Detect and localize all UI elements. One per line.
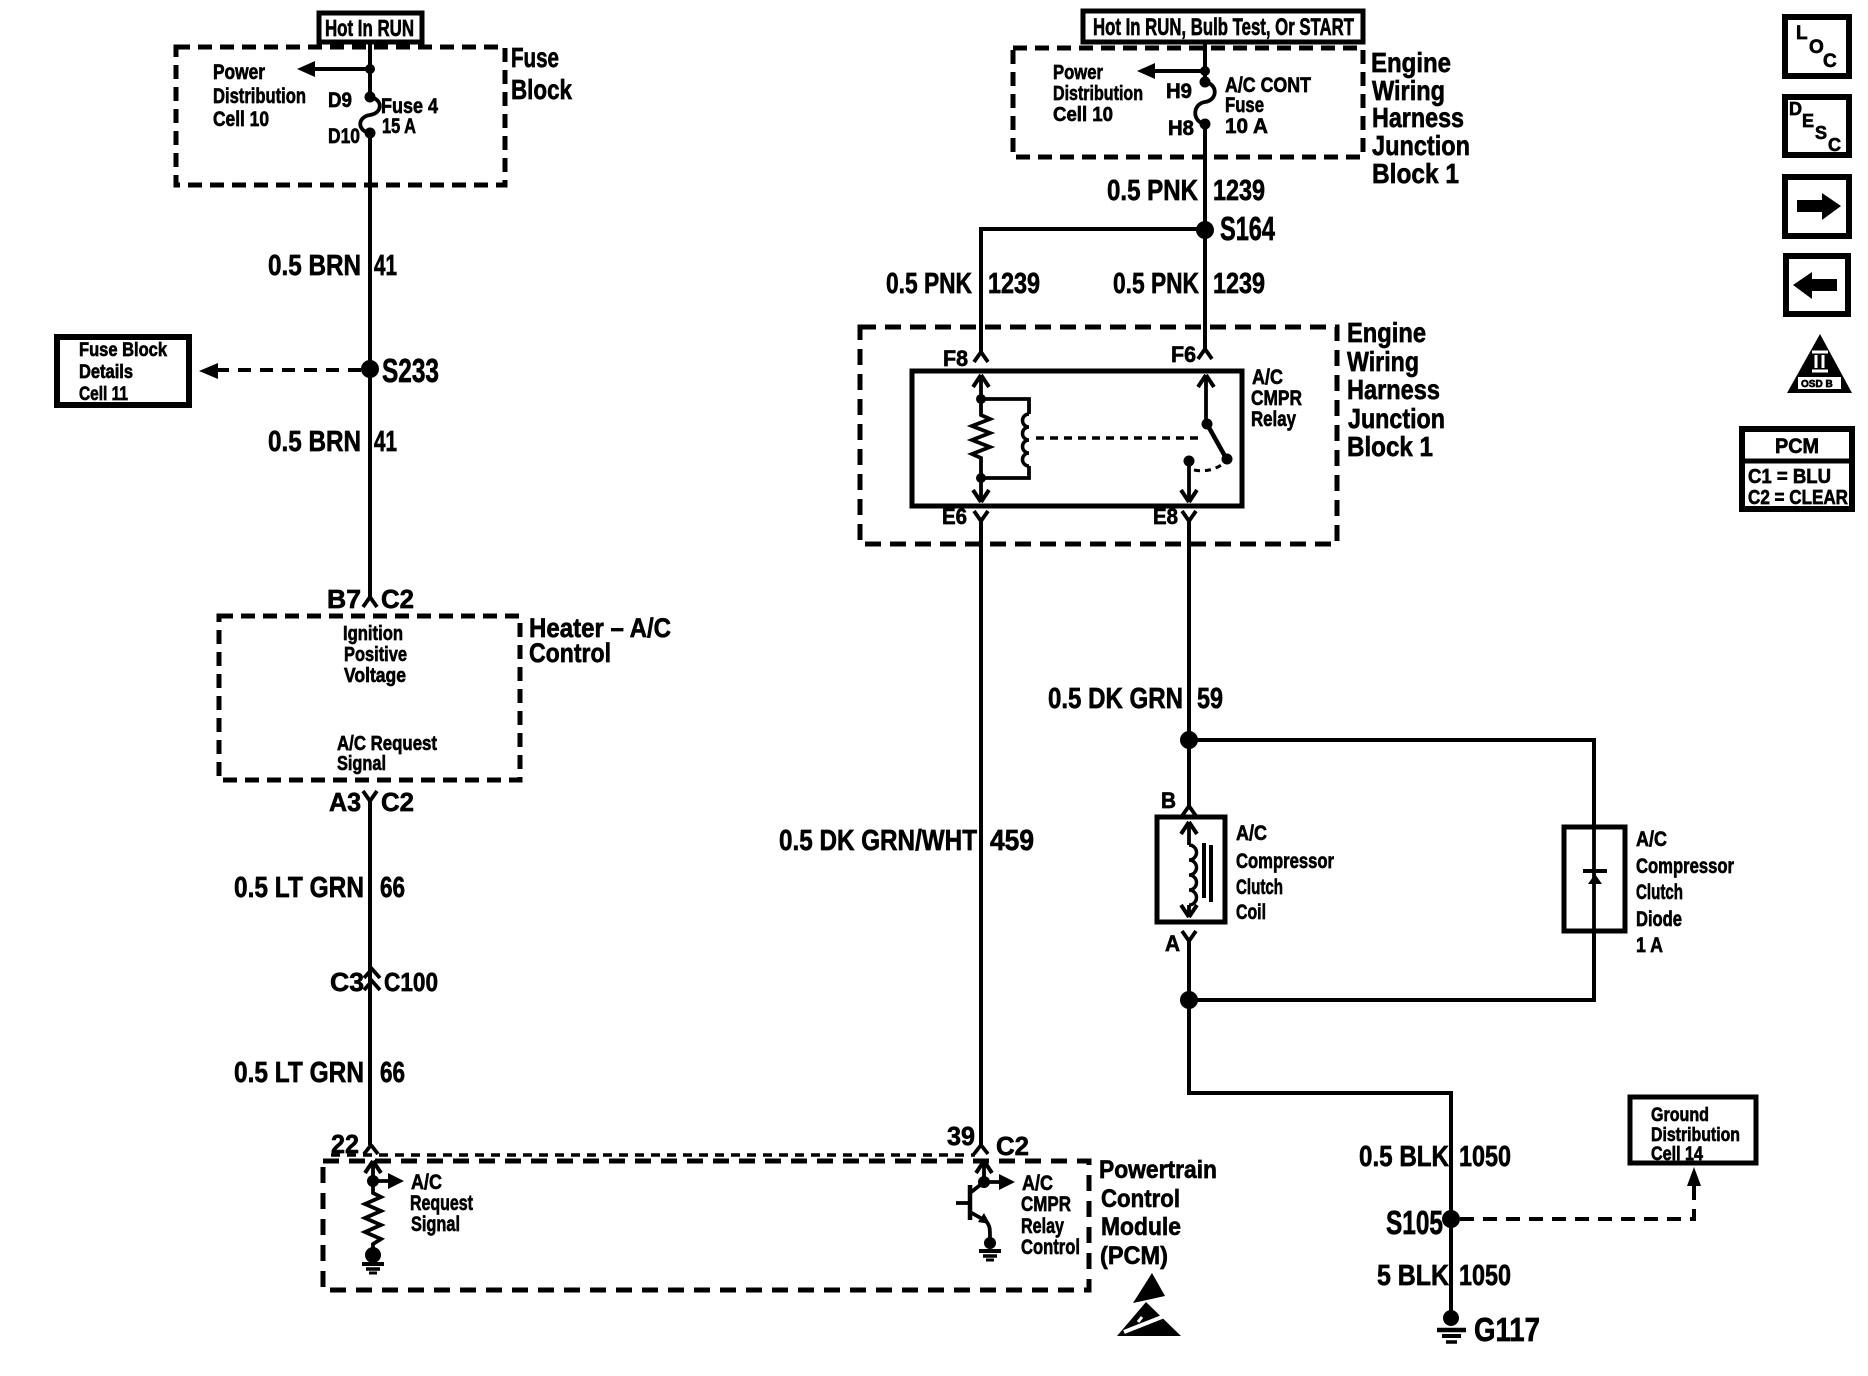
svg-text:0.5 PNK: 0.5 PNK <box>1113 268 1199 300</box>
fuse value label A/C CONT Fuse 10 A <box>1225 74 1311 138</box>
fuse A/C CONT symbol <box>1195 77 1215 130</box>
svg-text:D10: D10 <box>328 125 360 148</box>
relay coil pin arrow (F8 side, up) <box>973 375 989 399</box>
A/C compressor clutch diode box <box>1564 827 1625 931</box>
node at A/C CONT fuse top <box>1200 66 1210 76</box>
connector A3 C2 <box>329 787 414 817</box>
svg-text:OSD B: OSD B <box>1801 379 1833 390</box>
splice node S105 <box>1386 1204 1460 1241</box>
svg-text:C2: C2 <box>381 584 414 614</box>
svg-text:Fuse Block: Fuse Block <box>79 340 167 361</box>
sidebar forward arrow icon <box>1785 177 1849 236</box>
wire label 0.5 PNK 1239 (right branch) <box>1113 268 1265 300</box>
fuse block internal text Power Distribution Cell 10 <box>213 61 306 131</box>
ground wire down and right <box>1189 1000 1451 1313</box>
label A/C CMPR Relay Control (PCM) <box>1021 1172 1080 1259</box>
diode symbol <box>1583 827 1607 931</box>
svg-text:C2: C2 <box>381 787 414 817</box>
terminal A <box>1165 931 1196 956</box>
wire label 0.5 BRN 41 (lower) <box>268 426 397 458</box>
wire label 0.5 PNK 1239 (left branch) <box>886 268 1040 300</box>
junction node to diode branch (bottom) <box>1180 991 1198 1009</box>
svg-text:1 A: 1 A <box>1636 934 1663 957</box>
svg-text:66: 66 <box>380 872 405 904</box>
relay coil winding <box>981 399 1029 478</box>
svg-text:Relay: Relay <box>1021 1215 1064 1238</box>
label Engine Wiring Harness Junction Block 1 (relay) <box>1347 317 1445 462</box>
svg-text:S164: S164 <box>1220 210 1275 247</box>
heater box text ignition positive voltage <box>343 623 407 687</box>
svg-text:Cell 11: Cell 11 <box>79 384 128 405</box>
svg-text:Clutch: Clutch <box>1636 881 1683 904</box>
svg-text:F8: F8 <box>943 346 968 371</box>
svg-text:PCM: PCM <box>1775 435 1819 458</box>
fuse block dashed box <box>176 47 505 185</box>
label A/C Compressor Clutch Coil <box>1236 822 1334 924</box>
svg-text:Voltage: Voltage <box>344 665 406 687</box>
clutch coil internal symbol <box>1181 822 1211 917</box>
svg-text:Power: Power <box>1053 62 1103 84</box>
svg-text:D9: D9 <box>328 89 352 112</box>
relay resistor <box>972 399 990 478</box>
svg-text:0.5 LT GRN: 0.5 LT GRN <box>234 872 364 904</box>
transistor Q (relay driver) <box>956 1182 990 1238</box>
svg-text:E6: E6 <box>942 504 967 529</box>
svg-text:A/C: A/C <box>1236 822 1267 845</box>
svg-text:A/C: A/C <box>411 1171 442 1194</box>
svg-text:Powertrain: Powertrain <box>1099 1156 1217 1184</box>
svg-text:Power: Power <box>213 61 265 84</box>
label Powertrain Control Module (PCM) <box>1099 1156 1217 1270</box>
svg-text:Fuse: Fuse <box>1225 94 1264 117</box>
svg-text:S: S <box>1815 123 1827 143</box>
svg-text:H8: H8 <box>1168 117 1194 140</box>
dashed arrow to fuse block details <box>199 363 361 379</box>
svg-text:Ignition: Ignition <box>343 623 403 645</box>
svg-text:Control: Control <box>1021 1236 1080 1259</box>
svg-text:0.5 BRN: 0.5 BRN <box>268 250 361 282</box>
svg-text:Diode: Diode <box>1636 908 1682 931</box>
relay coil bottom node <box>976 473 986 483</box>
svg-text:Block 1: Block 1 <box>1372 158 1459 189</box>
svg-text:Request: Request <box>410 1192 473 1215</box>
wire label 0.5 PNK 1239 (above S164) <box>1107 175 1265 207</box>
svg-text:0.5 DK GRN/WHT: 0.5 DK GRN/WHT <box>779 825 977 857</box>
terminal B <box>1161 788 1196 816</box>
label Heater - A/C Control <box>529 613 671 668</box>
svg-text:A/C: A/C <box>1636 828 1667 851</box>
node at fuse top <box>365 64 375 74</box>
svg-text:B: B <box>1161 788 1176 813</box>
splice node S164 <box>1196 210 1275 247</box>
svg-text:Hot In RUN: Hot In RUN <box>325 15 414 41</box>
svg-text:F6: F6 <box>1171 342 1196 367</box>
svg-text:Clutch: Clutch <box>1236 876 1283 899</box>
svg-text:5 BLK: 5 BLK <box>1377 1260 1449 1292</box>
svg-text:1050: 1050 <box>1459 1141 1511 1173</box>
ground distribution cell 14 box <box>1630 1097 1756 1165</box>
svg-text:0.5 PNK: 0.5 PNK <box>886 268 972 300</box>
svg-text:C100: C100 <box>384 967 438 997</box>
terminal 22 <box>331 1129 378 1159</box>
svg-text:Compressor: Compressor <box>1636 855 1734 878</box>
svg-text:D: D <box>1789 99 1802 119</box>
terminal E8 <box>1153 504 1196 529</box>
svg-text:C: C <box>1828 135 1841 155</box>
wire label 0.5 BRN 41 (upper) <box>268 250 397 282</box>
dashed link S105 to ground distribution <box>1460 1167 1701 1219</box>
svg-text:Ground: Ground <box>1651 1105 1709 1126</box>
svg-text:66: 66 <box>380 1057 405 1089</box>
PCM connector legend table <box>1742 429 1852 509</box>
heater A/C control dashed box <box>219 616 520 780</box>
relay switch pivot <box>1202 419 1213 430</box>
branch wire S164 to left <box>981 229 1205 352</box>
wire E6 down to PCM pin 39 <box>979 521 983 1145</box>
A/C compressor clutch coil box <box>1157 817 1225 922</box>
svg-text:Engine: Engine <box>1371 47 1451 78</box>
relay switch blade <box>1207 424 1226 458</box>
svg-text:1239: 1239 <box>988 268 1040 300</box>
svg-text:Harness: Harness <box>1372 102 1464 133</box>
svg-text:Block: Block <box>511 74 572 105</box>
relay label A/C CMPR Relay <box>1251 366 1302 431</box>
svg-text:A/C Request: A/C Request <box>337 733 437 755</box>
PCM internal node (transistor collector) <box>978 1176 990 1188</box>
svg-text:Distribution: Distribution <box>1053 83 1143 105</box>
ESD warning symbol <box>1117 1273 1181 1336</box>
svg-text:Cell 10: Cell 10 <box>213 108 269 131</box>
relay coil pin arrow (E6 side, down) <box>973 478 989 502</box>
wire from Hot In RUN down <box>368 42 372 97</box>
svg-text:Cell 10: Cell 10 <box>1053 104 1113 126</box>
power label Hot In RUN <box>319 13 422 42</box>
svg-text:Distribution: Distribution <box>213 85 306 108</box>
svg-text:Control: Control <box>529 638 611 668</box>
svg-text:C2: C2 <box>996 1131 1029 1161</box>
PCM pin22 input arrow <box>365 1161 381 1181</box>
relay switch output arrow (E8 side, down) <box>1181 461 1197 502</box>
svg-text:A/C: A/C <box>1252 366 1283 389</box>
svg-text:A/C: A/C <box>1022 1172 1053 1195</box>
terminal F8 <box>943 346 988 371</box>
svg-text:0.5 BLK: 0.5 BLK <box>1359 1141 1449 1173</box>
svg-text:Compressor: Compressor <box>1236 850 1334 873</box>
svg-text:C: C <box>1823 51 1837 72</box>
sidebar back arrow icon <box>1786 256 1848 314</box>
svg-text:A3: A3 <box>329 787 361 817</box>
A/C CMPR relay box <box>912 371 1242 506</box>
ground dot (PCM right) <box>984 1237 996 1249</box>
svg-text:10 A: 10 A <box>1225 115 1268 138</box>
svg-text:G117: G117 <box>1474 1311 1540 1348</box>
svg-text:Signal: Signal <box>411 1213 460 1236</box>
label Engine Wiring Harness Junction Block 1 (top) <box>1371 47 1470 189</box>
fuse F4 symbol <box>360 92 380 139</box>
power label Hot In RUN, Bulb Test, Or START <box>1083 11 1363 42</box>
svg-text:Details: Details <box>79 362 133 383</box>
svg-text:0.5 DK GRN: 0.5 DK GRN <box>1048 683 1183 715</box>
A/C request signal arrow <box>373 1173 404 1189</box>
svg-text:Hot In RUN, Bulb Test, Or STAR: Hot In RUN, Bulb Test, Or START <box>1093 14 1354 41</box>
svg-text:1239: 1239 <box>1213 175 1265 207</box>
wire label 0.5 BLK 1050 <box>1359 1141 1511 1173</box>
relay coil top node <box>976 394 986 404</box>
wire to diode (top) <box>1189 740 1594 827</box>
svg-text:459: 459 <box>990 825 1034 857</box>
wire 0.5 BRN 41 upper <box>368 133 372 597</box>
fuse block details cell 11 box <box>57 337 189 405</box>
label A/C Compressor Clutch Diode 1 A <box>1636 828 1734 957</box>
relay switch output contact <box>1184 456 1195 467</box>
svg-text:E: E <box>1802 111 1814 131</box>
svg-text:S105: S105 <box>1386 1204 1443 1241</box>
resistor (A/C request pull) <box>365 1181 381 1249</box>
junction block 1 text Power Distribution Cell 10 <box>1053 62 1143 126</box>
ground dot (PCM left) <box>365 1247 381 1263</box>
svg-text:C2 = CLEAR: C2 = CLEAR <box>1748 487 1848 509</box>
sidebar LOC icon <box>1785 17 1849 76</box>
wire label 0.5 LT GRN 66 (lower) <box>234 1057 405 1089</box>
label A/C Request Signal (PCM) <box>410 1171 473 1236</box>
svg-text:Signal: Signal <box>337 753 386 775</box>
svg-text:A: A <box>1165 931 1180 956</box>
svg-text:Distribution: Distribution <box>1651 1125 1740 1146</box>
ground symbol (PCM left) <box>362 1264 384 1273</box>
svg-text:CMPR: CMPR <box>1021 1193 1071 1216</box>
heater box text A/C request signal <box>337 733 437 775</box>
relay actuation dashed link <box>1036 436 1200 440</box>
wire 0.5 LT GRN 66 upper <box>368 801 372 1145</box>
wire fuse to S164 <box>1203 124 1207 230</box>
wire label 0.5 DK GRN/WHT 459 <box>779 825 1034 857</box>
svg-text:41: 41 <box>374 250 397 282</box>
svg-text:L: L <box>1796 23 1808 44</box>
relay switch common arrow (F6 side) <box>1198 375 1214 424</box>
engine wiring harness junction block 1 dashed box (top) <box>1013 48 1363 157</box>
sidebar DESC icon <box>1785 97 1849 155</box>
inline connector C3 C100 <box>330 967 438 997</box>
svg-text:15 A: 15 A <box>382 115 416 138</box>
svg-text:Harness: Harness <box>1347 374 1440 405</box>
svg-text:H9: H9 <box>1166 80 1192 103</box>
svg-text:39: 39 <box>947 1121 975 1151</box>
wire A down to ground node <box>1187 941 1191 1000</box>
svg-text:C3: C3 <box>330 967 364 997</box>
connector B7 C2 <box>327 584 414 614</box>
wire from diode (bottom) <box>1189 931 1594 1000</box>
svg-text:0.5 BRN: 0.5 BRN <box>268 426 361 458</box>
svg-text:B7: B7 <box>327 584 361 614</box>
sidebar OSD warning triangle <box>1787 334 1852 393</box>
wire E8 down to clutch coil <box>1187 521 1191 806</box>
relay switch travel dashed arc <box>1194 464 1223 471</box>
svg-text:S233: S233 <box>382 352 439 389</box>
fuse value label Fuse 4 15 A <box>381 95 438 138</box>
wire label 0.5 LT GRN 66 (upper) <box>234 872 405 904</box>
svg-text:(PCM): (PCM) <box>1100 1242 1168 1270</box>
engine wiring harness junction block 1 dashed box (relay) <box>860 327 1337 544</box>
svg-text:Relay: Relay <box>1251 408 1296 431</box>
svg-text:Coil: Coil <box>1236 901 1266 924</box>
svg-text:1239: 1239 <box>1213 268 1265 300</box>
svg-text:Wiring: Wiring <box>1347 346 1419 377</box>
svg-text:0.5 PNK: 0.5 PNK <box>1107 175 1198 207</box>
svg-text:1050: 1050 <box>1459 1260 1511 1292</box>
PCM pin39 input arrow <box>976 1161 992 1182</box>
label Fuse Block <box>511 42 572 105</box>
svg-text:Cell 14: Cell 14 <box>1651 1144 1703 1165</box>
svg-text:Control: Control <box>1101 1185 1180 1213</box>
ground symbol (PCM right) <box>979 1251 1001 1260</box>
terminal F6 <box>1171 342 1212 367</box>
terminal E6 <box>942 504 988 529</box>
svg-text:0.5 LT GRN: 0.5 LT GRN <box>234 1057 364 1089</box>
PCM internal node <box>367 1175 379 1187</box>
junction node to diode branch (top) <box>1180 731 1198 749</box>
svg-text:Block 1: Block 1 <box>1347 431 1433 462</box>
svg-text:Positive: Positive <box>344 644 407 666</box>
svg-text:41: 41 <box>374 426 397 458</box>
splice node S233 <box>361 352 439 389</box>
connector face dotted line <box>331 1153 975 1157</box>
svg-text:O: O <box>1809 37 1824 58</box>
svg-text:C1 = BLU: C1 = BLU <box>1748 466 1831 488</box>
svg-text:Junction: Junction <box>1348 403 1445 434</box>
ground G117 <box>1437 1310 1540 1348</box>
svg-text:Junction: Junction <box>1372 130 1470 161</box>
svg-text:CMPR: CMPR <box>1251 387 1302 410</box>
A/C CMPR relay control arrow <box>984 1174 1015 1190</box>
svg-text:Engine: Engine <box>1347 317 1426 348</box>
wire label 0.5 DK GRN 59 <box>1048 683 1223 715</box>
wire S164 down to F6 <box>1203 230 1207 349</box>
PCM dashed box <box>323 1161 1089 1290</box>
svg-text:Module: Module <box>1101 1213 1181 1241</box>
wire from Hot In RUN Bulb Test down <box>1203 42 1207 82</box>
wire label 5 BLK 1050 <box>1377 1260 1511 1292</box>
svg-text:Fuse: Fuse <box>511 42 559 73</box>
svg-text:59: 59 <box>1197 683 1223 715</box>
arrow to power distribution (block 1) <box>1137 63 1205 79</box>
terminal 39 C2 <box>947 1121 1029 1161</box>
arrow to power distribution <box>297 61 370 77</box>
svg-text:E8: E8 <box>1153 504 1178 529</box>
